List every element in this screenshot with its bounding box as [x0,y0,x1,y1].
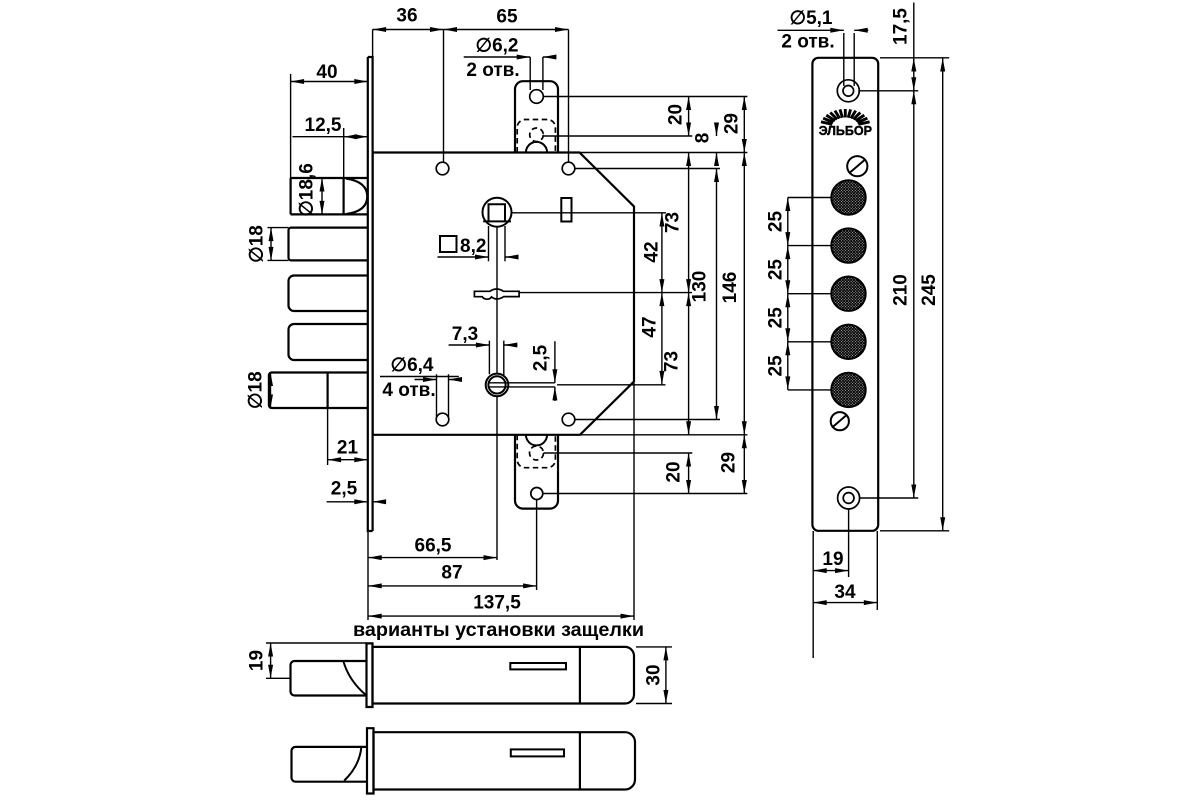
dim 245 [942,58,944,531]
ext lock top right [580,152,747,154]
screw bottom [831,412,849,430]
leader top plate hole [543,96,747,98]
body hole top-left [436,162,449,175]
dim column 42/47 [661,213,663,384]
svg-text:66,5: 66,5 [415,536,452,557]
svg-text:25: 25 [766,259,787,281]
svg-text:∅18: ∅18 [247,225,268,263]
svg-text:19: 19 [247,650,268,671]
leader hole bottom-right [575,419,720,421]
body hole top-right [562,162,575,175]
latch bolt D [291,178,368,214]
pin 3 [289,324,368,360]
svg-text:∅18,6: ∅18,6 [297,163,318,217]
pin 2 [289,276,368,312]
plate hole bottom [838,487,860,509]
svg-text:∅5,1: ∅5,1 [790,8,833,29]
slot rect [561,198,571,222]
dim 66,5 [368,531,497,620]
svg-text:2 отв.: 2 отв. [466,60,519,81]
latch2 slot [511,749,564,756]
pin 4 [269,373,368,409]
dashed circle bottom [530,446,544,460]
dim Ø18 lower [270,373,272,409]
svg-text:12,5: 12,5 [305,115,342,136]
bottom plate hole [531,488,543,500]
ext plate top/bottom [880,58,949,531]
leader bottom dashed circle [544,452,693,454]
faceplate front [812,58,878,531]
dashed circle top [530,128,544,142]
svg-text:25: 25 [766,355,787,377]
svg-text:30: 30 [644,664,665,685]
dim 137,5 [368,383,634,620]
dim 36/65 top [373,30,569,163]
latch1 divider [579,647,581,704]
latch2 faceplate bar [367,728,374,793]
centerline spindle-to-bottom [496,227,498,560]
svg-text:137,5: 137,5 [473,593,521,614]
hatched circle 1 [831,180,865,214]
dim column 29/146/29 [743,97,745,494]
svg-text:20: 20 [666,104,687,125]
svg-text:7,3: 7,3 [452,324,478,345]
dim 34 plate [813,531,877,610]
dim 19 plate [813,509,848,659]
svg-text:210: 210 [891,274,912,306]
latch semicircle top [526,142,547,153]
svg-text:25: 25 [766,307,787,329]
latch semicircle bottom [526,435,547,446]
hatched circle 3 [831,277,865,311]
dim Ø6,4 4 отв. [415,374,462,417]
leader plate hole bottom [859,497,918,499]
plate hole top [837,80,859,102]
top strike plate [515,81,558,152]
cylinder double circle [486,374,509,397]
svg-text:4 отв.: 4 отв. [382,380,435,401]
latch1 bolt bevel [343,661,366,696]
latch2 bolt bevel [344,747,361,781]
svg-text:146: 146 [720,272,741,304]
svg-text:29: 29 [719,452,740,473]
leader spindle right [512,212,667,214]
hatched circle 4 [831,325,865,359]
lock body outline [373,153,634,435]
svg-text:42: 42 [642,241,663,262]
svg-text:87: 87 [441,563,462,584]
svg-text:73: 73 [663,212,684,233]
svg-text:20: 20 [664,461,685,482]
spindle circle [483,198,512,227]
leader top dashed circle [543,135,692,137]
latch1 bolt [291,661,367,696]
svg-text:130: 130 [690,271,711,303]
svg-text:245: 245 [919,274,940,306]
svg-text:17,5: 17,5 [891,8,912,45]
svg-text:∅18: ∅18 [246,371,267,409]
svg-text:варианты установки защелки: варианты установки защелки [353,619,644,641]
dim column 8/130 [716,124,718,420]
latch1 faceplate bar [367,643,373,707]
svg-text:2,5: 2,5 [531,344,552,371]
svg-text:40: 40 [316,62,337,83]
dim Ø18 upper [268,228,289,261]
dim Ø6,2 2 отв. [464,57,554,90]
leader plate hole top [858,90,918,92]
dim 40 [291,74,368,178]
key cross [474,289,519,299]
latch2 bolt [292,747,368,782]
dim 17,5 / 210 [913,3,915,499]
svg-text:8,2: 8,2 [460,236,486,257]
leader keycross right [519,292,692,294]
leader hole top-right [575,168,720,170]
svg-text:8: 8 [693,133,714,144]
dim 25 chain [788,198,832,390]
body hole bottom-left [436,413,449,426]
spindle square 8.2 [483,204,511,221]
svg-text:29: 29 [722,113,743,134]
dim 30 [636,647,672,704]
dashed latch pocket bottom [517,435,555,468]
dim Ø5,1 2 отв. [778,30,869,86]
logo ЭЛЬБОР [819,109,872,138]
dim 87 [368,500,536,591]
latch2 divider [579,732,581,789]
dim 21 [328,408,368,465]
pin 1 [289,228,368,261]
svg-text:∅6,4: ∅6,4 [391,355,434,376]
dim 7,3 [449,341,518,377]
leader bottom plate hole [543,493,748,495]
svg-text:∅6,2: ∅6,2 [476,36,519,57]
dim □8,2 [438,226,517,261]
svg-text:65: 65 [496,7,518,28]
cylinder cam lines [489,383,666,387]
dashed latch pocket top [517,120,555,153]
body hole bottom-right [562,413,575,426]
latch1 slot [510,663,566,669]
faceplate side strip [368,57,373,531]
svg-text:21: 21 [337,438,359,459]
top plate hole [530,90,544,104]
svg-text:36: 36 [396,6,417,27]
dim column 20/73/73/20 [688,97,690,494]
dim 12,5 [293,128,368,178]
dim 2,5 faceplate [327,501,384,503]
screw top [847,156,867,176]
latch1 body [373,647,635,704]
bottom strike plate [515,435,558,509]
svg-text:25: 25 [766,211,787,233]
dim 19 [266,643,367,678]
latch2 body [374,732,636,789]
svg-text:19: 19 [822,549,843,570]
svg-text:2,5: 2,5 [331,479,358,500]
ext lock bottom right [580,434,747,436]
svg-text:34: 34 [834,582,856,603]
svg-text:ЭЛЬБОР: ЭЛЬБОР [819,124,872,138]
dim Ø18,6 [321,178,323,214]
svg-text:73: 73 [662,351,683,372]
svg-text:2 отв.: 2 отв. [781,32,834,53]
dim 2,5 cylinder [554,341,556,401]
svg-text:47: 47 [640,316,661,337]
hatched circle 2 [831,228,865,262]
hatched circle 5 [831,373,865,407]
